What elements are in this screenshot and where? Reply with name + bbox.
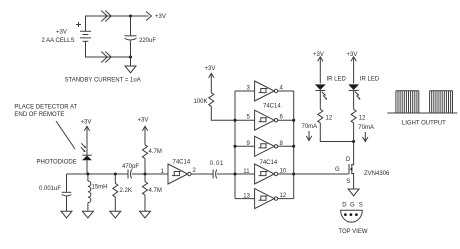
svg-text:70mA: 70mA xyxy=(302,124,318,130)
svg-text:+3V: +3V xyxy=(205,66,216,72)
svg-text:12: 12 xyxy=(359,116,366,122)
svg-text:74C14: 74C14 xyxy=(173,160,191,166)
svg-text:74C14: 74C14 xyxy=(263,104,281,110)
svg-text:11: 11 xyxy=(243,169,250,175)
svg-text:2.2K: 2.2K xyxy=(120,188,132,194)
svg-text:S: S xyxy=(359,202,363,208)
svg-text:4.7M: 4.7M xyxy=(149,149,162,155)
svg-text:13: 13 xyxy=(243,194,250,200)
svg-text:10: 10 xyxy=(280,169,287,175)
svg-text:TOP VIEW: TOP VIEW xyxy=(338,229,367,235)
svg-text:2: 2 xyxy=(193,168,197,174)
svg-text:END OF REMOTE: END OF REMOTE xyxy=(14,112,64,118)
svg-text:+3V: +3V xyxy=(347,52,358,58)
svg-text:LIGHT OUTPUT: LIGHT OUTPUT xyxy=(402,121,446,127)
svg-text:IR LED: IR LED xyxy=(327,77,347,83)
svg-text:G: G xyxy=(350,202,355,208)
svg-text:+3V: +3V xyxy=(138,118,149,124)
svg-text:74C14: 74C14 xyxy=(260,160,278,166)
svg-text:470pF: 470pF xyxy=(122,164,139,170)
svg-text:220uF: 220uF xyxy=(139,38,156,44)
svg-text:ZVN4306: ZVN4306 xyxy=(364,171,390,177)
svg-text:D: D xyxy=(346,157,351,163)
svg-text:70mA: 70mA xyxy=(358,125,374,131)
svg-text:100K: 100K xyxy=(194,99,208,105)
svg-text:15mH: 15mH xyxy=(92,185,108,191)
svg-text:12: 12 xyxy=(326,116,333,122)
svg-text:G: G xyxy=(335,167,340,173)
svg-text:+3V: +3V xyxy=(313,52,324,58)
svg-text:2 AA CELLS: 2 AA CELLS xyxy=(42,38,75,44)
svg-text:0.001uF: 0.001uF xyxy=(39,186,61,192)
svg-text:PHOTODIODE: PHOTODIODE xyxy=(37,160,77,166)
svg-text:+3V: +3V xyxy=(155,14,166,20)
svg-text:0.01: 0.01 xyxy=(210,161,224,167)
svg-text:D: D xyxy=(342,202,347,208)
svg-text:12: 12 xyxy=(280,193,287,199)
svg-text:S: S xyxy=(346,179,350,185)
svg-text:+3V: +3V xyxy=(81,120,92,126)
svg-text:4.7M: 4.7M xyxy=(149,188,162,194)
svg-text:STANDBY CURRENT = 1uA: STANDBY CURRENT = 1uA xyxy=(65,78,141,84)
svg-text:+3V: +3V xyxy=(56,30,67,36)
svg-text:PLACE DETECTOR AT: PLACE DETECTOR AT xyxy=(14,105,77,111)
svg-text:IR LED: IR LED xyxy=(360,77,380,83)
